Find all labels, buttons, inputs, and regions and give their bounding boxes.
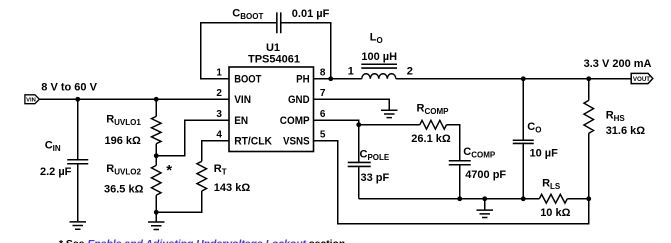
- svg-text:26.1 kΩ: 26.1 kΩ: [411, 133, 451, 145]
- inductor LO core bars: [361, 64, 397, 68]
- svg-text:33 pF: 33 pF: [361, 172, 390, 184]
- wire RUVLO1 bottom stub: [155, 144, 157, 156]
- resistor RT 143k: [197, 161, 207, 191]
- resistor RCOMP 26.1k: [420, 120, 447, 129]
- wire comp node to RCOMP left: [359, 124, 420, 126]
- junction node RUVLO2 bottom ground: [154, 210, 159, 215]
- wire VSNS pin 5 feedback to divider tap: [314, 141, 589, 224]
- wire RLS right stub: [567, 198, 588, 200]
- svg-text:RT/CLK: RT/CLK: [234, 136, 272, 148]
- junction node VIN rail / RUVLO1: [154, 97, 159, 102]
- svg-text:TPS54061: TPS54061: [248, 53, 300, 65]
- svg-text:8: 8: [320, 67, 326, 78]
- svg-text:0.01 µF: 0.01 µF: [292, 8, 330, 20]
- capacitor CPOLE plates: [348, 162, 371, 166]
- resistor RLS 10k: [539, 194, 567, 203]
- svg-text:10 µF: 10 µF: [530, 148, 559, 160]
- resistor RUVLO2 36.5k: [151, 165, 161, 195]
- junction node CO top on output rail: [521, 76, 526, 81]
- wire GND pin 7 to ground: [314, 99, 390, 110]
- svg-text:RUVLO2: RUVLO2: [106, 163, 141, 177]
- svg-text:GND: GND: [288, 94, 310, 106]
- svg-text:4700 pF: 4700 pF: [465, 169, 506, 181]
- wire CCOMP bottom leg: [459, 165, 461, 198]
- output terminal VOUT: [631, 73, 653, 83]
- svg-text:* See Enable and Adjusting Und: * See Enable and Adjusting Undervoltage …: [59, 238, 348, 243]
- svg-text:*: *: [166, 162, 172, 179]
- svg-text:BOOT: BOOT: [234, 74, 261, 86]
- svg-text:8 V to 60 V: 8 V to 60 V: [41, 82, 97, 94]
- junction node CO bottom / RLS left: [521, 196, 526, 201]
- svg-text:143 kΩ: 143 kΩ: [214, 182, 251, 194]
- wire CPOLE bottom leg: [358, 167, 360, 199]
- svg-text:VIN: VIN: [26, 98, 36, 104]
- svg-text:2.2 µF: 2.2 µF: [40, 166, 72, 178]
- svg-text:CBOOT: CBOOT: [232, 8, 263, 22]
- svg-text:VSNS: VSNS: [283, 136, 310, 148]
- svg-text:CPOLE: CPOLE: [360, 149, 390, 163]
- wire RCOMP right to CCOMP top: [447, 125, 460, 160]
- wire RUVLO2 top stub: [155, 156, 157, 166]
- svg-text:100 µH: 100 µH: [361, 51, 397, 63]
- svg-text:VIN: VIN: [234, 94, 251, 106]
- wire CIN top leg: [77, 99, 79, 159]
- svg-text:196 kΩ: 196 kΩ: [105, 135, 142, 147]
- wire CO bottom leg: [522, 144, 524, 199]
- wire RUVLO2 bottom stub to ground node: [155, 195, 157, 212]
- svg-text:31.6 kΩ: 31.6 kΩ: [606, 125, 646, 137]
- wire CPOLE top leg: [358, 125, 360, 162]
- junction node VIN rail / CIN: [75, 97, 80, 102]
- capacitor CBOOT plates: [277, 12, 281, 33]
- svg-text:7: 7: [320, 88, 326, 99]
- junction node feedback divider tap: [586, 196, 591, 201]
- svg-text:RHS: RHS: [606, 110, 626, 124]
- wire compensation ground rail: [359, 198, 524, 200]
- svg-text:3: 3: [216, 109, 222, 120]
- wire PH pin 8 to inductor pin 1: [314, 78, 362, 80]
- svg-text:VOUT: VOUT: [633, 76, 650, 83]
- svg-text:4: 4: [216, 129, 222, 140]
- IC U1 TPS54061 body: [229, 67, 314, 152]
- svg-text:5: 5: [320, 129, 326, 140]
- capacitor CCOMP plates: [449, 161, 471, 165]
- svg-text:1: 1: [348, 65, 354, 77]
- ground on comp rail: [477, 210, 494, 217]
- wire BOOT pin 1 to C_BOOT left plate: [201, 23, 276, 79]
- svg-text:COMP: COMP: [280, 115, 310, 127]
- junction node COMP: [356, 122, 361, 127]
- resistor RHS 31.6k: [584, 100, 594, 133]
- svg-text:3.3 V 200 mA: 3.3 V 200 mA: [584, 58, 652, 70]
- wire inductor pin 2 to VOUT terminal: [396, 78, 631, 80]
- wire C_BOOT right plate to PH node: [282, 23, 331, 79]
- svg-text:6: 6: [320, 109, 326, 120]
- wire RLS left stub: [523, 198, 539, 200]
- svg-text:RLS: RLS: [542, 178, 561, 192]
- junction node comp rail ground: [482, 196, 487, 201]
- wire UVLO divider tap to EN pin 3: [156, 120, 229, 156]
- wire RUVLO1 top stub: [155, 99, 157, 116]
- junction node UVLO divider tap: [154, 153, 159, 158]
- wire RHS top stub: [588, 79, 590, 101]
- ground below RUVLO2: [148, 222, 165, 229]
- svg-text:2: 2: [407, 65, 413, 77]
- ground below CIN: [70, 222, 87, 229]
- ground at GND pin 7: [381, 110, 398, 117]
- resistor RUVLO1 196k: [151, 116, 161, 143]
- junction node CCOMP bottom: [457, 196, 462, 201]
- wire ground stub on comp rail: [484, 199, 486, 210]
- svg-text:CCOMP: CCOMP: [463, 146, 496, 160]
- svg-text:LO: LO: [370, 32, 383, 46]
- svg-text:36.5 kΩ: 36.5 kΩ: [104, 183, 144, 195]
- svg-text:2: 2: [216, 88, 222, 99]
- capacitor CIN plates: [67, 160, 88, 164]
- svg-text:10 kΩ: 10 kΩ: [540, 207, 570, 219]
- junction node RHS top on output rail: [586, 76, 591, 81]
- svg-text:RCOMP: RCOMP: [417, 102, 450, 116]
- svg-text:PH: PH: [296, 74, 310, 86]
- svg-text:1: 1: [216, 67, 222, 78]
- wire COMP pin 6 to comp node: [314, 120, 359, 125]
- svg-text:RUVLO1: RUVLO1: [106, 113, 141, 127]
- svg-text:EN: EN: [234, 115, 248, 127]
- wire ground stub below RUVLO2 node: [155, 212, 157, 221]
- wire RHS bottom stub: [588, 133, 590, 199]
- wire RT/CLK pin 4 to RT top: [202, 141, 229, 162]
- wire ground rail under RT: [156, 191, 202, 212]
- capacitor CO plates: [513, 140, 534, 143]
- svg-text:CO: CO: [527, 121, 541, 135]
- junction node PH / CBOOT: [328, 76, 333, 81]
- svg-text:RT: RT: [214, 163, 227, 177]
- wire CIN bottom leg: [77, 164, 79, 221]
- svg-text:CIN: CIN: [45, 140, 61, 154]
- wire VIN input rail to pin 2: [39, 98, 229, 100]
- wire CO top leg: [522, 79, 524, 140]
- inductor LO coil: [362, 74, 396, 79]
- input terminal VIN: [25, 95, 40, 104]
